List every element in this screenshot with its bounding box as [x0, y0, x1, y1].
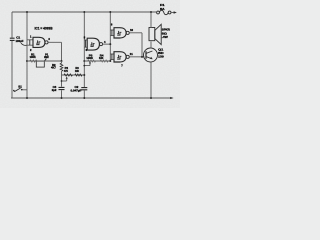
svg-text:11: 11 [130, 52, 133, 56]
wire gate4 input stubs [110, 54, 114, 60]
node gate1out/line [61, 60, 63, 62]
node V110 top [109, 11, 111, 13]
potentiometer P2 [64, 74, 72, 76]
node V84 top [83, 11, 85, 13]
node top rail / B [26, 11, 28, 13]
terminal positive arrow [174, 11, 177, 13]
transistor Q1 [144, 48, 158, 62]
capacitor C1 [10, 38, 15, 40]
svg-text:10: 10 [130, 28, 134, 32]
wire line y61 right [84, 60, 110, 62]
node V84 y75 [83, 74, 85, 76]
node speaker/top rail [150, 11, 152, 13]
wire V84 [83, 12, 85, 87]
svg-text:0.047µF: 0.047µF [71, 89, 82, 93]
node V84 y61 [83, 60, 85, 62]
gate3 input tie bar [111, 30, 113, 36]
node V84 bottom [83, 97, 85, 99]
svg-text:2M2: 2M2 [44, 55, 49, 59]
wire V61 bottom [61, 90, 63, 98]
paper grain [0, 0, 1, 1]
svg-text:100K: 100K [30, 55, 37, 59]
wire gate3 output [129, 33, 142, 57]
resistor R1 [30, 60, 38, 63]
gate4 input tie bar [111, 54, 113, 60]
op-amp U1b NAND gate 2 [87, 38, 102, 50]
node bottom rail / B [26, 97, 28, 99]
svg-text:10K: 10K [75, 69, 80, 73]
node gate outputs [141, 56, 143, 58]
svg-text:100µF: 100µF [16, 39, 24, 43]
node B y61 [26, 60, 28, 62]
resistor R4 [100, 60, 108, 63]
speaker LS1 [149, 24, 161, 44]
svg-text:47K: 47K [64, 69, 69, 73]
wire emitter [150, 62, 152, 99]
node wiper/V61 [61, 80, 63, 82]
switch S1 [13, 88, 27, 92]
wire gate1 output [48, 42, 61, 61]
node V61 bottom [61, 97, 63, 99]
wire V61 middle [61, 61, 63, 87]
svg-text:139: 139 [158, 55, 164, 59]
wiper P3 [84, 62, 91, 66]
wire speaker top [150, 12, 152, 28]
wire collector [150, 42, 152, 49]
svg-text:2µ2: 2µ2 [52, 88, 57, 92]
node V110 y61 [109, 60, 111, 62]
resistor R3 [75, 74, 82, 76]
svg-text:IC1 = 4093B: IC1 = 4093B [35, 26, 53, 30]
gate2 input tie bar [85, 40, 87, 47]
wire V84 bottom [83, 90, 85, 98]
wire bottom rail (0V) [11, 97, 171, 99]
wiper P2 [62, 77, 68, 81]
op-amp U1c NAND gate 3 [114, 28, 129, 38]
fuse F1 [157, 10, 174, 14]
gate1 input tie bar [29, 40, 31, 45]
wire V110 [109, 12, 111, 61]
potentiometer P3 [88, 60, 96, 63]
resistor R2 [60, 63, 63, 71]
capacitor C2 [81, 88, 87, 90]
wire vertical B [26, 12, 28, 98]
node emitter bottom [150, 97, 152, 99]
wire gate4 output [129, 56, 144, 58]
terminal negative arrow [170, 97, 173, 99]
wire gate1 input stubs [27, 40, 33, 45]
svg-text:S1: S1 [18, 84, 22, 88]
wire gate2 input stubs [84, 40, 87, 47]
potentiometer P1 [36, 59, 46, 68]
wire left rail lower [11, 41, 13, 98]
wire feedback line y61 [27, 60, 62, 62]
wire gate3 input stubs [110, 30, 114, 36]
node V110 gate2out [109, 43, 111, 45]
op-amp U1a NAND gate 1 [33, 37, 48, 47]
node wiper/V84 [83, 65, 85, 67]
op-amp U1d NAND gate 4 [114, 52, 129, 62]
svg-text:.4W: .4W [162, 35, 168, 39]
svg-text:100K: 100K [86, 56, 93, 60]
wire top rail [12, 11, 156, 13]
wire left rail upper [11, 12, 13, 38]
capacitor C3 [59, 87, 65, 89]
wire gate2 output [103, 43, 111, 45]
scan squiggle [21, 43, 27, 45]
wire line y75 [62, 74, 85, 76]
svg-text:4K7: 4K7 [51, 65, 56, 69]
